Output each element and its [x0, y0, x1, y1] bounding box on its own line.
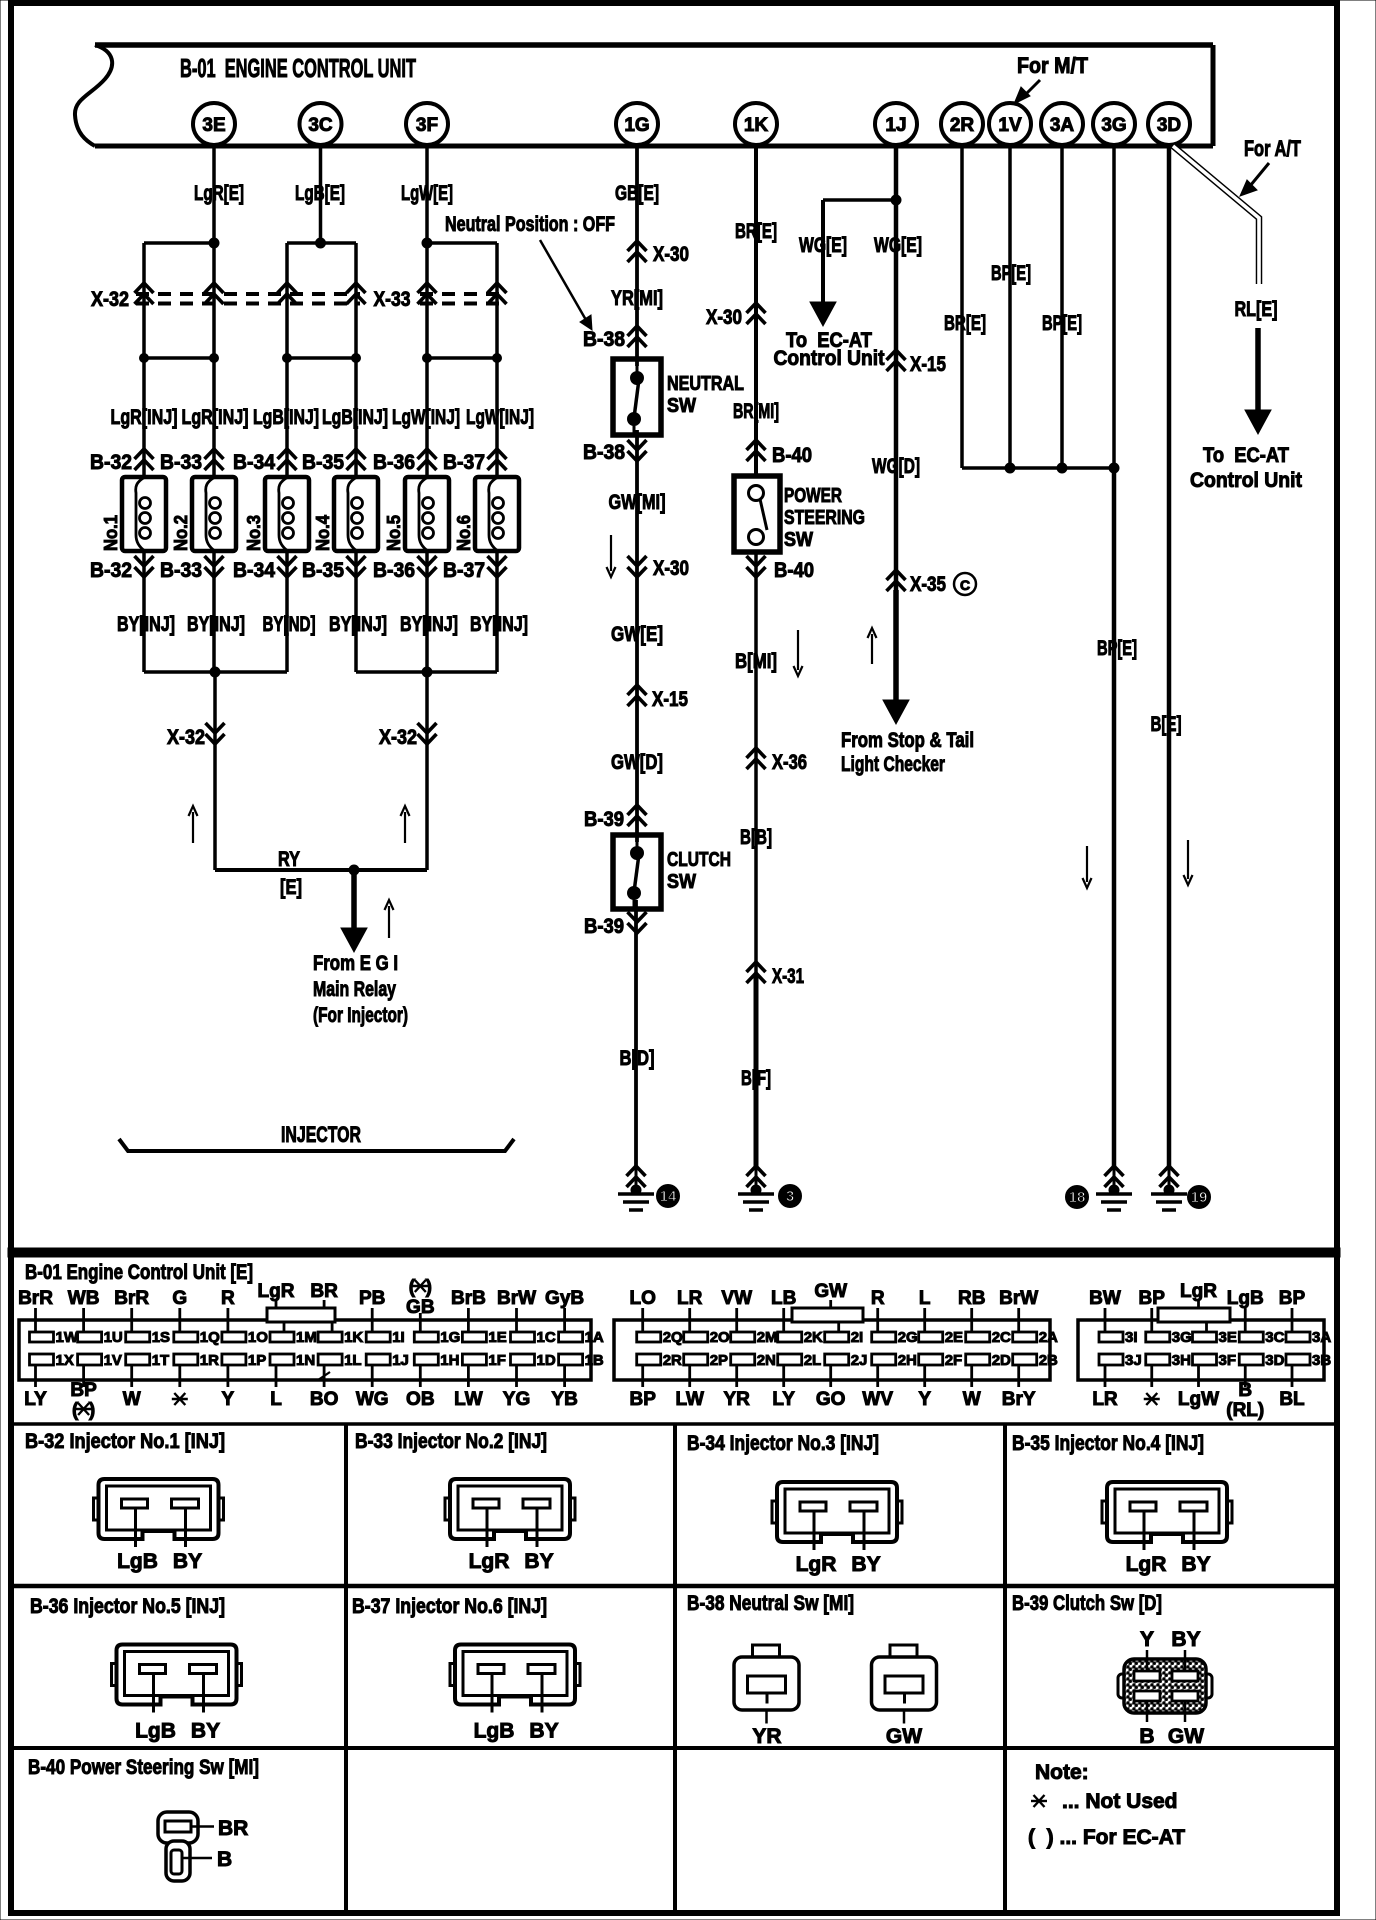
svg-text:B[B]: B[B] [740, 826, 772, 849]
svg-text:Control Unit: Control Unit [774, 347, 885, 370]
svg-text:BR[E]: BR[E] [944, 312, 986, 335]
trunk wires to main relay [215, 672, 427, 870]
svg-text:B-33: B-33 [160, 451, 202, 474]
ground 14 [618, 1166, 680, 1210]
connector B-36 top [373, 449, 437, 474]
svg-text:YB: YB [551, 1389, 577, 1410]
svg-text:1S: 1S [152, 1329, 170, 1346]
branch to EC-AT [774, 195, 923, 370]
svg-text:3E: 3E [202, 115, 225, 136]
wire 3G to ground [1083, 468, 1138, 1168]
svg-text:1J: 1J [392, 1352, 409, 1369]
svg-text:W: W [123, 1389, 141, 1410]
svg-text:LW: LW [454, 1389, 483, 1410]
svg-text:LgB[INJ]: LgB[INJ] [322, 406, 388, 429]
flow arrow [794, 630, 803, 676]
svg-text:3F: 3F [416, 115, 438, 136]
svg-text:B-38: B-38 [583, 328, 625, 351]
svg-text:BR[MI]: BR[MI] [733, 400, 779, 423]
svg-text:LgB: LgB [135, 1720, 176, 1743]
clutch switch [613, 835, 731, 909]
svg-text:No.3: No.3 [244, 515, 264, 551]
svg-text:... Not Used: ... Not Used [1062, 1790, 1178, 1813]
svg-text:LB: LB [771, 1288, 796, 1309]
ECU pin 1V [989, 103, 1031, 145]
svg-text:BO: BO [310, 1389, 339, 1410]
svg-text:LgR: LgR [469, 1550, 510, 1573]
injector return wire labels BY[INJ] [117, 613, 528, 636]
svg-text:LgR[E]: LgR[E] [194, 182, 244, 205]
svg-text:BP: BP [1139, 1288, 1166, 1309]
svg-text:WG: WG [356, 1389, 389, 1410]
connector B-33 top [160, 449, 224, 474]
connector B-38 top [583, 326, 647, 351]
svg-text:2G: 2G [898, 1329, 918, 1346]
svg-text:B-35 Injector No.4 [INJ]: B-35 Injector No.4 [INJ] [1012, 1432, 1204, 1455]
svg-text:B[F]: B[F] [741, 1067, 771, 1090]
svg-text:GB: GB [406, 1297, 435, 1318]
label B[MI] [735, 650, 777, 673]
svg-text:B: B [1238, 1380, 1252, 1401]
wire 3D to ground [1151, 145, 1193, 1168]
svg-text:R: R [871, 1288, 885, 1309]
svg-text:B-40: B-40 [772, 444, 812, 467]
svg-text:B-36: B-36 [373, 559, 415, 582]
svg-text:LY: LY [772, 1389, 795, 1410]
cell B-38 Neutral Sw [687, 1592, 937, 1748]
injector No.1 [101, 477, 166, 551]
ground 3 [738, 1166, 802, 1210]
svg-text:YR[MI]: YR[MI] [611, 287, 663, 310]
connector B-34 bottom [233, 556, 297, 582]
connector B-34 top [233, 449, 297, 474]
label BR[E] [735, 220, 777, 243]
svg-text:1Q: 1Q [200, 1329, 220, 1346]
svg-text:[E]: [E] [280, 876, 302, 899]
svg-text:X-32: X-32 [167, 726, 205, 749]
svg-text:BP[E]: BP[E] [1042, 312, 1082, 335]
svg-text:BrW: BrW [497, 1288, 536, 1309]
return join left group [144, 667, 287, 677]
svg-text:B-34 Injector No.3 [INJ]: B-34 Injector No.3 [INJ] [687, 1432, 879, 1455]
ECU pin 3G [1093, 103, 1135, 145]
wire 3C to injector pair [287, 145, 356, 248]
svg-text:VW: VW [721, 1288, 752, 1309]
svg-text:GW[MI]: GW[MI] [609, 491, 666, 514]
svg-text:YR: YR [752, 1725, 781, 1748]
connector B-38 bottom [583, 440, 647, 464]
svg-text:B-32: B-32 [90, 451, 132, 474]
svg-text:YG: YG [503, 1389, 530, 1410]
svg-text:X-30: X-30 [653, 557, 689, 580]
injector No.4 [313, 477, 378, 551]
connector B-32 top [90, 449, 154, 474]
cell B-35 Injector No.4 [1012, 1432, 1232, 1576]
ECU B-01 Engine Control Unit box [75, 45, 1213, 146]
wire 3A [1042, 145, 1082, 468]
svg-text:1M: 1M [296, 1329, 317, 1346]
return join right group [356, 667, 497, 677]
svg-text:CLUTCH: CLUTCH [667, 849, 731, 871]
svg-text:2A: 2A [1039, 1329, 1058, 1346]
stop and tail light checker note [841, 729, 974, 776]
svg-text:BP: BP [70, 1380, 97, 1401]
ECU connector block 3 [1078, 1308, 1331, 1387]
svg-text:W: W [963, 1389, 981, 1410]
connector X-31 [747, 962, 805, 988]
svg-text:B: B [1139, 1725, 1154, 1748]
svg-text:19: 19 [1191, 1189, 1208, 1206]
cell B-32 Injector No.1 [25, 1430, 225, 1573]
svg-text:POWER: POWER [784, 485, 842, 507]
svg-text:C: C [960, 577, 970, 593]
label BR[MI] [733, 400, 779, 423]
svg-text:BrW: BrW [999, 1288, 1038, 1309]
svg-text:3D: 3D [1157, 115, 1181, 136]
svg-text:LgW[E]: LgW[E] [401, 182, 453, 205]
cell B-34 Injector No.3 [687, 1432, 902, 1576]
svg-text:BL: BL [1279, 1389, 1305, 1410]
svg-text:BY: BY [1171, 1628, 1200, 1651]
flow arrow [607, 535, 616, 577]
svg-text:BY[INJ]: BY[INJ] [187, 613, 245, 636]
neutral switch [613, 359, 744, 435]
svg-text:B-32: B-32 [90, 559, 132, 582]
injector pair join nodes [140, 354, 502, 363]
connector X-30 mid [628, 556, 690, 580]
svg-text:1K: 1K [744, 115, 769, 136]
wire 1V [991, 145, 1031, 468]
svg-text:GyB: GyB [545, 1288, 584, 1309]
stray mark near 1L [318, 1372, 330, 1380]
svg-text:BP: BP [629, 1389, 656, 1410]
svg-text:2C: 2C [992, 1329, 1011, 1346]
ECU pin 3D [1148, 103, 1190, 145]
svg-text:B: B [217, 1848, 232, 1871]
svg-text:B-33 Injector No.2 [INJ]: B-33 Injector No.2 [INJ] [355, 1430, 547, 1453]
svg-text:No.4: No.4 [313, 515, 333, 551]
svg-text:14: 14 [660, 1188, 677, 1205]
svg-text:1U: 1U [104, 1329, 123, 1346]
svg-text:BrR: BrR [18, 1288, 53, 1309]
svg-text:LgW[INJ]: LgW[INJ] [392, 406, 460, 429]
node RY[E] bottom join [215, 848, 427, 899]
svg-text:Light Checker: Light Checker [841, 753, 945, 776]
For A/T note and RL[E] branch [1173, 136, 1302, 492]
svg-text:B-39: B-39 [584, 915, 624, 938]
svg-text:1T: 1T [152, 1352, 170, 1369]
svg-text:3C: 3C [308, 115, 333, 136]
svg-text:BW: BW [1089, 1288, 1121, 1309]
svg-text:SW: SW [667, 871, 696, 893]
svg-text:3F: 3F [1219, 1352, 1237, 1369]
svg-text:2Q: 2Q [663, 1329, 683, 1346]
ECU connector block 3 wire colors [1089, 1281, 1305, 1421]
svg-text:OB: OB [406, 1389, 435, 1410]
arrow to EGI main relay [341, 870, 394, 952]
svg-text:INJECTOR: INJECTOR [281, 1122, 361, 1147]
wire 1G (GB/YR/GW) [636, 145, 637, 1168]
svg-text:SW: SW [784, 529, 813, 551]
svg-text:X-30: X-30 [653, 243, 689, 266]
svg-text:BY[INJ]: BY[INJ] [400, 613, 458, 636]
svg-text:1N: 1N [296, 1352, 315, 1369]
svg-text:3B: 3B [1312, 1352, 1331, 1369]
svg-text:For M/T: For M/T [1017, 53, 1088, 78]
svg-text:3H: 3H [1172, 1352, 1191, 1369]
label GW[MI] [609, 491, 666, 514]
svg-text:WV: WV [862, 1389, 893, 1410]
svg-text:B-37: B-37 [443, 559, 485, 582]
ECU pin 2R [941, 103, 983, 145]
cell B-37 Injector No.6 [352, 1595, 580, 1743]
svg-text:BY[INJ]: BY[INJ] [329, 613, 387, 636]
svg-text:Y: Y [1140, 1628, 1154, 1651]
svg-text:1B: 1B [585, 1352, 604, 1369]
injector return wires to join [144, 551, 497, 672]
svg-text:B-34: B-34 [233, 451, 275, 474]
svg-text:LY: LY [24, 1389, 47, 1410]
svg-text:1G: 1G [440, 1329, 460, 1346]
svg-text:GW: GW [1168, 1725, 1204, 1748]
svg-text:B-38: B-38 [583, 441, 625, 464]
svg-text:1J: 1J [885, 115, 906, 136]
svg-text:B-34: B-34 [233, 559, 275, 582]
svg-text:B-39 Clutch Sw [D]: B-39 Clutch Sw [D] [1012, 1592, 1162, 1615]
svg-text:No.2: No.2 [171, 515, 191, 551]
svg-text:2L: 2L [804, 1352, 822, 1369]
label GB[E] [615, 182, 659, 205]
svg-text:X-33: X-33 [374, 288, 411, 311]
power steering switch [734, 476, 865, 552]
svg-text:BY[INJ]: BY[INJ] [117, 613, 175, 636]
svg-text:X-35: X-35 [910, 573, 946, 596]
svg-text:RL[E]: RL[E] [1235, 298, 1278, 321]
injector No.3 [244, 477, 309, 551]
For M/T note [1014, 53, 1088, 104]
svg-text:LgB[E]: LgB[E] [295, 182, 345, 205]
wire 3F to injector pair [401, 145, 497, 248]
connector B-40 top [747, 440, 813, 467]
ECU connector block 3 bracket [1158, 1308, 1230, 1322]
ECU connector block 1 [19, 1308, 604, 1387]
ground 19 [1151, 1166, 1211, 1210]
svg-text:2J: 2J [851, 1352, 868, 1369]
svg-text:GO: GO [816, 1389, 846, 1410]
svg-text:BY: BY [524, 1550, 553, 1573]
connector X-35 C [887, 570, 977, 596]
svg-text:2D: 2D [992, 1352, 1011, 1369]
svg-text:3G: 3G [1101, 115, 1126, 136]
svg-text:RB: RB [958, 1288, 985, 1309]
label B[B] [740, 826, 772, 849]
ECU connector block 1 wire colors [18, 1277, 584, 1421]
svg-text:2R: 2R [950, 115, 975, 136]
svg-text:GW: GW [814, 1281, 847, 1302]
svg-text:3E: 3E [1219, 1329, 1237, 1346]
svg-text:LgR[INJ]: LgR[INJ] [182, 406, 249, 429]
svg-text:BY: BY [529, 1720, 558, 1743]
svg-text:G: G [172, 1288, 187, 1309]
svg-text:3J: 3J [1125, 1352, 1142, 1369]
label B[F] [741, 1067, 771, 1090]
svg-text:3: 3 [786, 1188, 794, 1205]
svg-text:2F: 2F [945, 1352, 963, 1369]
svg-text:LgB[INJ]: LgB[INJ] [253, 406, 319, 429]
svg-text:X-32: X-32 [379, 726, 417, 749]
svg-text:LgR: LgR [796, 1553, 837, 1576]
svg-text:LgR[INJ]: LgR[INJ] [111, 406, 178, 429]
svg-text:3G: 3G [1172, 1329, 1192, 1346]
label YR[MI] [611, 287, 663, 310]
svg-text:SW: SW [667, 395, 696, 417]
svg-text:2E: 2E [945, 1329, 963, 1346]
svg-text:From E G I: From E G I [313, 952, 398, 975]
svg-text:WG[E]: WG[E] [874, 234, 922, 257]
svg-text:1H: 1H [440, 1352, 459, 1369]
svg-text:1O: 1O [248, 1329, 268, 1346]
svg-text:No.1: No.1 [101, 515, 121, 551]
injector No.6 [454, 477, 519, 551]
svg-text:BY: BY [191, 1720, 220, 1743]
svg-text:3A: 3A [1050, 115, 1075, 136]
svg-text:WG[E]: WG[E] [799, 234, 847, 257]
svg-text:3I: 3I [1125, 1329, 1138, 1346]
cell B-36 Injector No.5 [30, 1595, 242, 1743]
connector B-35 bottom [302, 556, 366, 582]
svg-text:(For Injector): (For Injector) [313, 1004, 408, 1027]
svg-text:LR: LR [1092, 1389, 1118, 1410]
svg-text:1X: 1X [56, 1352, 74, 1369]
ECU pin 1G [616, 103, 658, 145]
svg-text:LgW: LgW [1178, 1389, 1219, 1410]
svg-text:2N: 2N [757, 1352, 776, 1369]
svg-text:Main Relay: Main Relay [313, 978, 396, 1001]
join node BP[E] [962, 463, 1119, 473]
svg-text:B-35: B-35 [302, 451, 344, 474]
svg-text:GW: GW [886, 1725, 922, 1748]
INJECTOR group bracket [119, 1122, 514, 1151]
connector X-32 trunk chevrons [167, 723, 437, 749]
connector B-37 bottom [443, 556, 507, 582]
svg-text:No.5: No.5 [384, 515, 404, 551]
svg-text:LgR: LgR [258, 1281, 295, 1302]
ECU pin 3F [406, 103, 448, 145]
note cell [1028, 1761, 1185, 1849]
svg-text:BrY: BrY [1002, 1389, 1036, 1410]
svg-text:GW[D]: GW[D] [611, 751, 663, 774]
svg-text:B-01 Engine Control Unit [E]: B-01 Engine Control Unit [E] [25, 1261, 253, 1284]
svg-text:PB: PB [359, 1288, 385, 1309]
connector B-37 top [443, 449, 507, 474]
svg-text:LO: LO [630, 1288, 656, 1309]
ECU pin 1K [735, 103, 777, 145]
connector X-36 [747, 748, 808, 774]
ECU pin 3E [193, 103, 235, 145]
connector X-30 on 1K [706, 303, 766, 329]
svg-text:1W: 1W [56, 1329, 79, 1346]
svg-text:1D: 1D [537, 1352, 556, 1369]
injector wire labels LgR/LgB/LgW [INJ] [111, 406, 535, 429]
svg-text:RY: RY [278, 848, 300, 871]
connector B-40 bottom [747, 556, 815, 582]
svg-text:Note:: Note: [1035, 1761, 1089, 1784]
connector B-39 top [584, 805, 647, 831]
wire 3E to injector pair [144, 145, 244, 248]
svg-text:WG[D]: WG[D] [872, 455, 920, 478]
svg-text:BP: BP [1279, 1288, 1306, 1309]
ECU connector block 2 bracket [792, 1308, 863, 1322]
table header B-01 Engine Control Unit [E] [25, 1261, 253, 1284]
svg-text:1V: 1V [998, 115, 1022, 136]
ECU connector block 1 bracket [267, 1308, 335, 1322]
connector X-15 on 1G [628, 685, 689, 711]
label GW[D] [611, 751, 663, 774]
wire 2R [944, 145, 986, 468]
EGI main relay note [313, 952, 408, 1027]
svg-text:To EC-AT: To EC-AT [1203, 444, 1289, 467]
svg-text:B[E]: B[E] [1151, 713, 1182, 736]
svg-text:2K: 2K [804, 1329, 823, 1346]
svg-text:1P: 1P [248, 1352, 266, 1369]
injector feed wires through X-32/X-33 [144, 243, 497, 477]
svg-text:No.6: No.6 [454, 515, 474, 551]
svg-text:B-35: B-35 [302, 559, 344, 582]
svg-text:2P: 2P [710, 1352, 728, 1369]
cell B-33 Injector No.2 [355, 1430, 575, 1573]
wire 1J (WG) [883, 145, 909, 724]
svg-text:LgW[INJ]: LgW[INJ] [466, 406, 534, 429]
svg-text:R: R [221, 1288, 235, 1309]
svg-text:LgB: LgB [1227, 1288, 1264, 1309]
svg-text:X-31: X-31 [772, 965, 804, 988]
svg-text:From Stop & Tail: From Stop & Tail [841, 729, 974, 752]
svg-text:BR[E]: BR[E] [735, 220, 777, 243]
svg-text:L: L [270, 1389, 282, 1410]
connector B-36 bottom [373, 556, 437, 582]
svg-text:1F: 1F [488, 1352, 506, 1369]
label GW[E] [611, 623, 663, 646]
svg-text:BY[ND]: BY[ND] [263, 613, 316, 636]
wire 1K (BR/B) [754, 145, 758, 1168]
svg-text:B[D]: B[D] [620, 1047, 655, 1070]
ECU pin 1J [875, 103, 917, 145]
svg-text:B-32 Injector No.1 [INJ]: B-32 Injector No.1 [INJ] [25, 1430, 225, 1453]
svg-text:Control Unit: Control Unit [1190, 469, 1302, 492]
svg-text:2R: 2R [663, 1352, 682, 1369]
svg-text:B-36 Injector No.5 [INJ]: B-36 Injector No.5 [INJ] [30, 1595, 225, 1618]
ECU connector block 2 wire colors [629, 1281, 1038, 1410]
svg-text:LgB: LgB [117, 1550, 158, 1573]
label WG[D] [872, 455, 920, 478]
svg-text:BY[INJ]: BY[INJ] [470, 613, 528, 636]
ECU pin 3C [300, 103, 342, 145]
connector B-33 bottom [160, 556, 224, 582]
injector No.5 [384, 477, 449, 551]
svg-text:BY: BY [1181, 1553, 1210, 1576]
connector B-35 top [302, 449, 366, 474]
svg-text:BY: BY [173, 1550, 202, 1573]
svg-text:1A: 1A [585, 1329, 604, 1346]
connector X-30 on 1G [628, 241, 690, 266]
svg-text:3C: 3C [1265, 1329, 1284, 1346]
svg-text:B-38 Neutral Sw [MI]: B-38 Neutral Sw [MI] [687, 1592, 854, 1615]
svg-text:B-40 Power Steering Sw [MI]: B-40 Power Steering Sw [MI] [28, 1756, 259, 1779]
svg-text:STEERING: STEERING [784, 507, 865, 529]
cell B-39 Clutch Sw [1012, 1592, 1212, 1748]
table grid [8, 1424, 1340, 1913]
svg-text:18: 18 [1069, 1189, 1086, 1206]
